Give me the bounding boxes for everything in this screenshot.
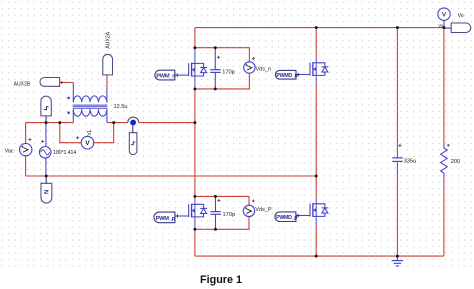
voltmeter Vo (438, 8, 450, 28)
node blue dot (resonant node) (130, 120, 136, 126)
label pill N (41, 176, 52, 203)
label pill PWMD_p (gate Q4) (275, 212, 298, 222)
svg-text:Vo: Vo (438, 23, 444, 28)
svg-text:170p: 170p (222, 69, 235, 75)
phase dot top (67, 97, 70, 100)
resistor R1 200 (load) (441, 144, 448, 177)
svg-text:PWMD_p: PWMD_p (276, 215, 298, 221)
svg-text:PWM_p: PWM_p (156, 216, 176, 222)
capacitor C2 170p (bottom) (210, 196, 220, 229)
svg-text:12.5u: 12.5u (114, 104, 128, 110)
wire neutral run to right leg midpoint (26, 175, 317, 177)
node flag pill below blue node (129, 125, 137, 154)
wire left leg top (rail corner to Q1 drain) (194, 28, 196, 48)
pin aux left (72, 83, 74, 103)
wire load branch lower (443, 177, 445, 256)
pin primary left (72, 109, 74, 122)
svg-text:N: N (45, 190, 51, 194)
voltmeter VL (81, 136, 94, 149)
wire Q2 source tap row (195, 217, 249, 229)
phase dot bottom (67, 111, 70, 114)
wire Vac top lead (25, 123, 27, 144)
svg-text:Vds_n: Vds_n (256, 66, 272, 72)
svg-text:180*1.414: 180*1.414 (53, 150, 76, 156)
pin primary right (106, 109, 108, 122)
svg-text:AUX2A: AUX2A (105, 31, 111, 48)
transistor Q4 (bottom right MOSFET) (298, 198, 328, 226)
label pill PWM_n (gate Q1) (155, 70, 178, 80)
wire load branch upper (443, 28, 445, 145)
wire right leg bottom (Q4 to bottom rail) (315, 225, 317, 256)
wire Vac bottom lead (25, 156, 27, 176)
wire node L run (transformer to hop) (107, 122, 128, 124)
svg-text:Vo: Vo (458, 13, 464, 19)
transformer TX1 coupled windings (67, 83, 107, 123)
wire output cap branch lower (396, 175, 398, 256)
label pill AUX2B (40, 78, 62, 87)
voltmeter Vac (20, 143, 32, 155)
wire output cap branch upper (396, 28, 398, 151)
wire AUX2B label to transformer (60, 82, 74, 84)
svg-text:V: V (85, 140, 90, 147)
core lines (73, 105, 108, 108)
label pill Vo (top right) (444, 23, 471, 33)
polarity plus marks (28, 56, 449, 203)
voltage probe Vds_n (244, 62, 255, 73)
wire node L run (left section to transformer pin) (26, 122, 74, 124)
label pill L-flag (above AC line) (41, 96, 51, 123)
svg-text:Vac: Vac (5, 148, 14, 154)
transistor Q1 (top left MOSFET) (177, 48, 207, 89)
svg-text:Figure 1: Figure 1 (200, 274, 242, 286)
capacitor C3 335u (output) (392, 150, 403, 175)
AC source pins (blue) (45, 123, 47, 176)
transistor Q2 (bottom left MOSFET) (177, 196, 207, 229)
svg-text:Vds_P: Vds_P (255, 207, 272, 213)
svg-text:PWMD_n: PWMD_n (276, 73, 297, 79)
wire VL probe right tap (94, 123, 114, 143)
wire hop to left bridge leg (139, 122, 195, 124)
winding primary (bottom) (73, 109, 107, 116)
wire AUX2A label to transformer (106, 75, 108, 87)
wire right leg lower (mid node to Q4) (315, 176, 317, 198)
ground (392, 256, 404, 266)
wire top rail (195, 27, 444, 29)
wire Q2 drain tap row (195, 196, 249, 205)
svg-text:PWM_n: PWM_n (156, 74, 176, 80)
svg-text:VL: VL (87, 129, 93, 135)
svg-text:200: 200 (451, 159, 461, 165)
wire right leg middle (Q3 to mid node) (315, 82, 317, 176)
wire left leg bottom (Q2 source to bottom rail) (194, 229, 196, 256)
transistor Q3 (top right MOSFET) (298, 58, 328, 82)
voltage probe Vds_P (243, 205, 254, 216)
label pill PWMD_n (gate Q3) (275, 70, 298, 79)
AC source V1 180*1.414 (39, 147, 51, 159)
svg-text:335u: 335u (404, 159, 417, 165)
wire bottom rail (195, 255, 444, 257)
winding aux (top) (73, 96, 107, 102)
wire right leg top (rail to Q3) (315, 28, 317, 59)
svg-text:170p: 170p (223, 212, 236, 218)
label pill PWM_p (gate Q2) (154, 212, 177, 223)
wire Q1 source tap row (195, 74, 250, 89)
label pill AUX2A (103, 54, 113, 75)
wire hop over node (128, 117, 139, 123)
wire left leg middle (Q1 source to Q2 drain) (194, 89, 196, 196)
wire Q1 drain tap row (195, 48, 250, 62)
wire VL probe left tap (60, 123, 81, 143)
capacitor C1 170p (top) (210, 48, 220, 89)
pin aux right (106, 87, 108, 102)
svg-text:AUX2B: AUX2B (14, 82, 31, 88)
